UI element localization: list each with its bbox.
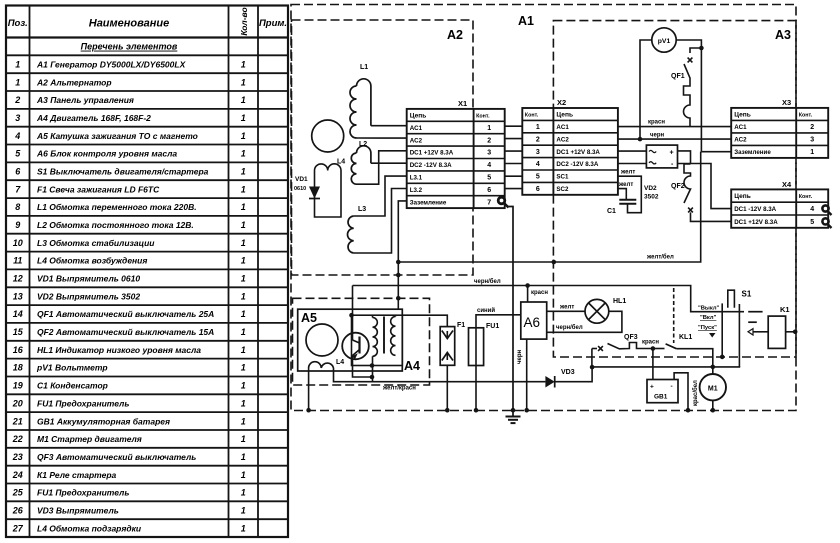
- svg-text:K1: K1: [780, 305, 790, 314]
- breaker QF1: [671, 48, 701, 127]
- voltmeter pV1: [652, 28, 676, 52]
- svg-text:X4: X4: [782, 180, 792, 189]
- svg-text:красн: красн: [642, 340, 659, 346]
- svg-text:1: 1: [241, 327, 246, 337]
- svg-text:X1: X1: [458, 99, 467, 108]
- wire KL1 to M1: [676, 349, 712, 374]
- clamp icon X4 pin4: [822, 205, 831, 215]
- connector X3 table: [731, 98, 828, 158]
- diode VD1: [294, 176, 320, 199]
- svg-text:7: 7: [487, 199, 491, 206]
- S1 position dashes: [748, 312, 762, 323]
- label chern: [650, 133, 664, 139]
- svg-text:1: 1: [241, 363, 246, 373]
- label chern/bel kill: [474, 278, 501, 285]
- junction dot A6 branch: [525, 283, 530, 288]
- svg-text:A6: A6: [524, 315, 541, 330]
- svg-text:L4 Обмотка возбуждения: L4 Обмотка возбуждения: [37, 256, 147, 266]
- junction dot L4 chassis: [306, 408, 311, 413]
- svg-text:24: 24: [12, 470, 23, 480]
- svg-text:+: +: [670, 150, 674, 157]
- label A2: [447, 28, 463, 42]
- svg-text:A5: A5: [301, 311, 317, 325]
- svg-text:QF3 Автоматический выключатель: QF3 Автоматический выключатель: [37, 452, 196, 462]
- svg-text:AC2: AC2: [410, 137, 423, 144]
- svg-text:L4 Обмотка подзарядки: L4 Обмотка подзарядки: [37, 523, 142, 533]
- svg-text:1: 1: [241, 309, 246, 319]
- wire siniy FU1 to A6: [476, 315, 521, 328]
- wire K1 left with arrow: [748, 329, 768, 335]
- svg-text:2: 2: [487, 137, 491, 144]
- svg-text:3502: 3502: [644, 194, 659, 201]
- connector X1 table: [407, 99, 505, 208]
- svg-text:черн/бел: черн/бел: [556, 324, 583, 331]
- svg-text:FU1: FU1: [486, 323, 499, 330]
- svg-text:9: 9: [15, 220, 20, 230]
- svg-text:23: 23: [12, 452, 23, 462]
- svg-text:желт/красн: желт/красн: [382, 386, 416, 392]
- junction dot M1 chassis: [711, 408, 716, 413]
- svg-text:L1 Обмотка переменного тока 22: L1 Обмотка переменного тока 220В.: [37, 202, 197, 212]
- wire krasn AC1: [618, 126, 731, 128]
- svg-text:VD2: VD2: [644, 185, 657, 192]
- svg-text:Наименование: Наименование: [89, 18, 170, 30]
- svg-text:А3 Панель управления: А3 Панель управления: [36, 95, 134, 105]
- svg-text:AC2: AC2: [734, 137, 747, 144]
- svg-text:X2: X2: [557, 98, 566, 107]
- junction dot starter bus left: [590, 365, 595, 370]
- svg-text:KL1: KL1: [679, 334, 692, 341]
- svg-text:pV1 Вольтметр: pV1 Вольтметр: [36, 363, 108, 373]
- wire L1 to X1 AC1: [371, 125, 407, 127]
- label A4: [404, 359, 420, 373]
- svg-text:4: 4: [14, 131, 20, 141]
- junction dot: [396, 260, 401, 265]
- svg-text:синий: синий: [477, 307, 495, 314]
- svg-text:Поз.: Поз.: [8, 18, 28, 29]
- svg-text:AC1: AC1: [556, 124, 569, 131]
- spark plug F1: [440, 322, 465, 365]
- coil L4 charging winding: [309, 359, 345, 368]
- svg-text:1: 1: [241, 381, 246, 391]
- wire VD3 line: [555, 367, 592, 381]
- clamp icon X4 pin5: [822, 218, 831, 228]
- svg-text:DC1 +12V 8.3A: DC1 +12V 8.3A: [556, 149, 600, 156]
- svg-text:10: 10: [13, 238, 23, 248]
- svg-text:X3: X3: [782, 98, 791, 107]
- junction dot emitter join: [370, 375, 375, 380]
- ignition coil secondary: [391, 317, 396, 356]
- svg-text:20: 20: [12, 398, 23, 408]
- label Vkl: [700, 315, 717, 321]
- svg-text:16: 16: [13, 345, 24, 355]
- svg-text:QF2: QF2: [671, 183, 685, 190]
- wire chern AC2: [618, 138, 731, 140]
- svg-text:А6 Блок контроля уровня масла: А6 Блок контроля уровня масла: [36, 149, 177, 159]
- svg-text:К1 Реле стартера: К1 Реле стартера: [37, 470, 117, 480]
- label zhelt 2: [618, 182, 633, 188]
- svg-text:1: 1: [15, 77, 20, 87]
- junction dot FU1 chassis: [474, 408, 479, 413]
- wire X1 pin5 to X2: [505, 175, 523, 177]
- svg-text:pV1: pV1: [658, 38, 671, 45]
- wire X2 SC1 loop to C1: [618, 176, 641, 213]
- svg-text:QF1 Автоматический выключатель: QF1 Автоматический выключатель 25А: [37, 309, 214, 319]
- svg-text:3: 3: [15, 113, 20, 123]
- svg-text:VD3 Выпрямитель: VD3 Выпрямитель: [37, 506, 119, 516]
- switch S1 pin start-down: [738, 304, 740, 367]
- junction dot K1 frame: [793, 330, 798, 335]
- svg-text:FU1 Предохранитель: FU1 Предохранитель: [37, 398, 129, 408]
- svg-text:1: 1: [241, 202, 246, 212]
- junction dot A6 ground: [524, 408, 529, 413]
- wire GB1 minus to chassis: [674, 373, 688, 410]
- svg-text:3: 3: [810, 137, 814, 144]
- wire pV1 right down to X3 ground: [676, 40, 701, 152]
- svg-text:6: 6: [536, 186, 540, 193]
- wire chern/bel A6 to lamp: [547, 311, 622, 332]
- wire zhelt/bel ground link: [398, 152, 700, 262]
- parts list table: [6, 6, 288, 538]
- svg-text:2: 2: [810, 124, 814, 131]
- svg-text:GB1: GB1: [654, 394, 668, 401]
- svg-text:1: 1: [241, 77, 246, 87]
- svg-text:1: 1: [241, 238, 246, 248]
- wire X2 DC2 to VD2: [618, 163, 647, 165]
- svg-text:А4 Двигатель 168F, 168F-2: А4 Двигатель 168F, 168F-2: [36, 113, 151, 123]
- wire VD2 minus to X4 pin4: [678, 164, 732, 209]
- relay K1 coil: [768, 305, 789, 348]
- svg-text:А1 Генератор DY5000LX/DY6500LX: А1 Генератор DY5000LX/DY6500LX: [36, 60, 187, 70]
- wire QF2 to X4 pin5: [691, 212, 732, 221]
- fuse FU1: [469, 323, 500, 366]
- svg-text:1: 1: [241, 434, 246, 444]
- connector X2 table: [522, 98, 618, 195]
- label chern vertical: [517, 350, 523, 364]
- svg-text:8: 8: [15, 202, 20, 212]
- coil L1 main AC winding: [350, 64, 371, 138]
- label A1: [518, 14, 534, 28]
- svg-text:1: 1: [536, 124, 540, 131]
- svg-text:2: 2: [536, 136, 540, 143]
- wire secondary to F1: [402, 315, 447, 326]
- svg-text:Цепь: Цепь: [410, 113, 427, 120]
- wire primary top: [372, 315, 374, 317]
- label A3: [775, 28, 791, 42]
- block A3 control panel dashed frame: [553, 21, 796, 357]
- svg-text:QF1: QF1: [671, 73, 685, 80]
- label Pusk: [698, 325, 717, 331]
- wire emitter to bottom: [353, 362, 372, 377]
- svg-text:L3 Обмотка стабилизации: L3 Обмотка стабилизации: [37, 238, 155, 248]
- rotor circle of alternator: [312, 120, 344, 152]
- svg-text:L3.1: L3.1: [410, 175, 423, 182]
- label krasn/bel vertical: [692, 380, 699, 406]
- svg-text:+: +: [650, 384, 654, 391]
- svg-text:L1: L1: [360, 64, 368, 71]
- svg-text:14: 14: [13, 309, 23, 319]
- connector X4 table: [731, 180, 828, 228]
- svg-text:С1 Конденсатор: С1 Конденсатор: [37, 381, 108, 391]
- breaker QF2: [671, 164, 693, 212]
- svg-text:A1: A1: [518, 14, 534, 28]
- svg-text:DC1 +12V 8.3A: DC1 +12V 8.3A: [410, 150, 454, 157]
- wire FU1 down to chassis: [475, 366, 477, 411]
- wire A6 chern down to chassis: [526, 339, 528, 410]
- block A6 oil level box: [521, 302, 547, 339]
- junction dot pV1/chern: [638, 137, 643, 142]
- label chern/bel A6: [556, 324, 583, 331]
- switch S1 pin off-down: [721, 303, 723, 357]
- svg-text:Перечень элементов: Перечень элементов: [81, 42, 178, 52]
- svg-text:"Пуск": "Пуск": [698, 325, 717, 331]
- svg-text:QF2 Автоматический выключатель: QF2 Автоматический выключатель 15А: [37, 327, 214, 337]
- label zhelt HL1: [559, 305, 574, 311]
- svg-text:S1 Выключатель двигателя/старт: S1 Выключатель двигателя/стартера: [37, 167, 209, 177]
- svg-text:1: 1: [241, 131, 246, 141]
- svg-text:Конт.: Конт.: [525, 113, 539, 119]
- svg-text:3: 3: [487, 150, 491, 157]
- svg-text:черн/бел: черн/бел: [474, 278, 501, 285]
- junction dot: [396, 273, 401, 278]
- svg-text:C1: C1: [607, 208, 616, 215]
- svg-text:красн: красн: [531, 290, 548, 296]
- wire kill to S1: [690, 286, 745, 312]
- wire QF3 to KL1: [653, 348, 665, 350]
- starter M1: [700, 374, 726, 400]
- wire krasn to A6: [527, 286, 529, 303]
- wire GB1 plus: [652, 349, 654, 380]
- svg-text:2: 2: [14, 95, 20, 105]
- svg-text:4: 4: [810, 206, 814, 213]
- svg-text:L4: L4: [336, 359, 344, 366]
- junction dot module top: [349, 313, 354, 318]
- svg-text:FU1 Предохранитель: FU1 Предохранитель: [37, 488, 129, 498]
- S1 pusk arrow: [709, 333, 716, 338]
- switch S1 bracket: [728, 290, 752, 308]
- diode VD3: [545, 369, 574, 388]
- svg-text:27: 27: [12, 523, 24, 533]
- svg-text:1: 1: [241, 184, 246, 194]
- wire X1 zazemlenie down: [398, 201, 406, 315]
- svg-text:М1 Стартер двигателя: М1 Стартер двигателя: [37, 434, 142, 444]
- svg-text:желт: желт: [559, 305, 574, 311]
- svg-text:1: 1: [241, 523, 246, 533]
- junction dot on A3 frame: [552, 260, 557, 265]
- wire K1 right to frame: [786, 331, 796, 333]
- wire zhelt/krasn charging to VD3: [334, 368, 546, 382]
- svg-text:18: 18: [13, 363, 23, 373]
- svg-text:1: 1: [241, 506, 246, 516]
- svg-text:AC1: AC1: [734, 124, 747, 131]
- coil L4 field winding (A2): [315, 159, 346, 218]
- svg-text:Заземление: Заземление: [734, 149, 771, 156]
- wire L3 top to X1 L3.1: [354, 176, 407, 216]
- svg-text:1: 1: [241, 149, 246, 159]
- junction dot F1 chassis: [445, 408, 450, 413]
- block A1 generator dashed frame: [291, 5, 796, 411]
- svg-text:5: 5: [487, 175, 491, 182]
- svg-text:VD3: VD3: [561, 369, 575, 376]
- svg-text:5: 5: [810, 219, 814, 226]
- wire F1 to chassis: [446, 365, 448, 410]
- svg-text:"Выкл": "Выкл": [698, 306, 720, 312]
- svg-text:22: 22: [12, 434, 23, 444]
- svg-text:Цепь: Цепь: [734, 193, 751, 200]
- svg-text:Кол-во: Кол-во: [239, 7, 249, 35]
- svg-text:Заземление: Заземление: [410, 199, 447, 206]
- svg-text:0610: 0610: [294, 186, 306, 192]
- svg-text:L2 Обмотка постоянного тока 12: L2 Обмотка постоянного тока 12В.: [37, 220, 194, 230]
- svg-text:Конт.: Конт.: [799, 194, 813, 200]
- junction dot QF3/GB1: [651, 346, 656, 351]
- svg-text:F1: F1: [457, 322, 465, 329]
- svg-text:13: 13: [13, 291, 23, 301]
- svg-text:1: 1: [241, 95, 246, 105]
- svg-text:-: -: [671, 383, 673, 390]
- wire L1 to X1 AC2: [357, 137, 407, 139]
- block A2 alternator dashed frame: [292, 20, 474, 275]
- svg-text:S1: S1: [742, 290, 752, 299]
- svg-text:L2: L2: [359, 141, 367, 148]
- junction dot QF1 branch: [699, 46, 704, 51]
- svg-text:SC2: SC2: [556, 186, 569, 193]
- wire into transistor: [352, 286, 354, 341]
- wire X1 pin1 to X2: [505, 125, 523, 127]
- wire X1 pin4 to X2: [505, 163, 523, 165]
- svg-text:5: 5: [536, 174, 540, 181]
- svg-text:4: 4: [487, 162, 491, 169]
- svg-text:1: 1: [241, 345, 246, 355]
- svg-text:Цепь: Цепь: [556, 112, 573, 119]
- chassis clamp at X1 pin 7: [498, 197, 508, 207]
- wire QF3 left down: [591, 349, 593, 368]
- svg-text:19: 19: [13, 381, 23, 391]
- svg-text:SC1: SC1: [556, 174, 569, 181]
- svg-text:1: 1: [241, 452, 246, 462]
- ignition coil core: [383, 317, 385, 354]
- label zhelt/krasn: [382, 386, 416, 392]
- svg-text:L3: L3: [358, 206, 366, 213]
- svg-text:желт: желт: [620, 170, 635, 176]
- wire L2 to X1 DC1: [357, 151, 407, 184]
- KL1 mechanical dashed link: [673, 288, 675, 343]
- svg-text:6: 6: [487, 187, 491, 194]
- transistor Q1: [342, 333, 369, 362]
- wire M1 to chassis: [712, 400, 714, 410]
- wire X2 SC2 to C1: [618, 189, 626, 200]
- svg-text:L3.2: L3.2: [410, 187, 423, 194]
- svg-text:1: 1: [241, 113, 246, 123]
- svg-text:25: 25: [12, 488, 24, 498]
- svg-text:GB1 Аккумуляторная батарея: GB1 Аккумуляторная батарея: [37, 416, 170, 426]
- wire X1 pin3 to X2: [505, 150, 523, 152]
- wire primary bottom: [372, 356, 374, 381]
- svg-text:желт/бел: желт/бел: [646, 254, 674, 261]
- junction dot S1 frame: [720, 355, 725, 360]
- capacitor C1: [607, 200, 636, 215]
- rectifier VD2: [644, 145, 678, 200]
- block A5 magneto box: [298, 309, 403, 371]
- svg-text:HL1 Индикатор низкого уровня м: HL1 Индикатор низкого уровня масла: [37, 345, 201, 355]
- wire X2 DC1 to VD2: [618, 150, 647, 152]
- svg-text:F1 Свеча зажигания LD F6TC: F1 Свеча зажигания LD F6TC: [37, 184, 160, 194]
- svg-text:1: 1: [15, 60, 20, 70]
- wire X1 pin2 to X2: [505, 138, 523, 140]
- svg-text:А2 Альтернатор: А2 Альтернатор: [36, 77, 112, 87]
- svg-text:VD1 Выпрямитель 0610: VD1 Выпрямитель 0610: [37, 274, 140, 284]
- svg-text:Конт.: Конт.: [476, 114, 490, 120]
- svg-text:AC2: AC2: [556, 136, 569, 143]
- breaker QF3 horizontal: [592, 334, 653, 351]
- magneto rotor circle: [306, 324, 338, 356]
- label krasn: [648, 120, 665, 126]
- svg-text:26: 26: [12, 506, 24, 516]
- ground symbol: [506, 408, 521, 423]
- svg-text:3: 3: [536, 149, 540, 156]
- contact KL1: [666, 334, 693, 349]
- svg-text:черн: черн: [517, 350, 523, 364]
- label siniy: [477, 307, 495, 314]
- svg-text:15: 15: [13, 327, 24, 337]
- svg-text:1: 1: [241, 488, 246, 498]
- svg-text:DC2 -12V 8.3A: DC2 -12V 8.3A: [410, 162, 452, 169]
- wire pV1 left to chern: [640, 40, 652, 139]
- wire L4 left leg to chassis: [308, 368, 310, 410]
- svg-text:1: 1: [241, 416, 246, 426]
- svg-text:HL1: HL1: [613, 298, 626, 305]
- label zhelt 1: [620, 170, 635, 176]
- svg-text:А5 Катушка зажигания ТО с магн: А5 Катушка зажигания ТО с магнето: [36, 131, 198, 141]
- svg-text:L4: L4: [337, 159, 345, 166]
- svg-text:Цепь: Цепь: [734, 112, 751, 119]
- svg-text:1: 1: [487, 125, 491, 132]
- svg-text:черн: черн: [650, 133, 664, 139]
- wire X1 pin6 to X2: [505, 188, 523, 190]
- svg-text:Прим.: Прим.: [259, 18, 287, 29]
- label krasn A6: [531, 290, 548, 296]
- wire chern/bel kill line: [353, 285, 690, 287]
- lamp HL1: [585, 298, 626, 323]
- junction dot M1 top: [711, 365, 716, 370]
- svg-text:A4: A4: [404, 359, 420, 373]
- svg-text:1: 1: [241, 60, 246, 70]
- label krasn QF3: [642, 340, 659, 346]
- svg-text:1: 1: [241, 256, 246, 266]
- svg-text:11: 11: [13, 256, 22, 266]
- svg-text:VD2 Выпрямитель 3502: VD2 Выпрямитель 3502: [37, 291, 140, 301]
- svg-text:1: 1: [241, 470, 246, 480]
- wire VD2 plus to QF2: [678, 151, 691, 164]
- svg-text:"Вкл": "Вкл": [700, 315, 717, 321]
- wire A6 zhelt to HL1: [547, 310, 585, 312]
- svg-text:1: 1: [241, 291, 246, 301]
- svg-text:DC2 -12V 8.3A: DC2 -12V 8.3A: [556, 161, 598, 168]
- svg-text:желт: желт: [618, 182, 633, 188]
- svg-text:DC1 -12V 8.3A: DC1 -12V 8.3A: [734, 206, 776, 213]
- wire L3 bottom to X1 L3.2: [354, 189, 407, 254]
- svg-text:крас/бел: крас/бел: [692, 380, 699, 406]
- svg-text:A2: A2: [447, 28, 463, 42]
- ignition module box: [352, 315, 403, 365]
- wire X1 ground to chassis: [509, 207, 514, 411]
- ignition coil primary: [373, 318, 378, 357]
- svg-text:красн: красн: [648, 120, 665, 126]
- junction dot primary bottom: [370, 363, 375, 368]
- svg-text:Конт.: Конт.: [799, 113, 813, 119]
- svg-text:4: 4: [536, 161, 540, 168]
- svg-text:VD1: VD1: [295, 176, 308, 183]
